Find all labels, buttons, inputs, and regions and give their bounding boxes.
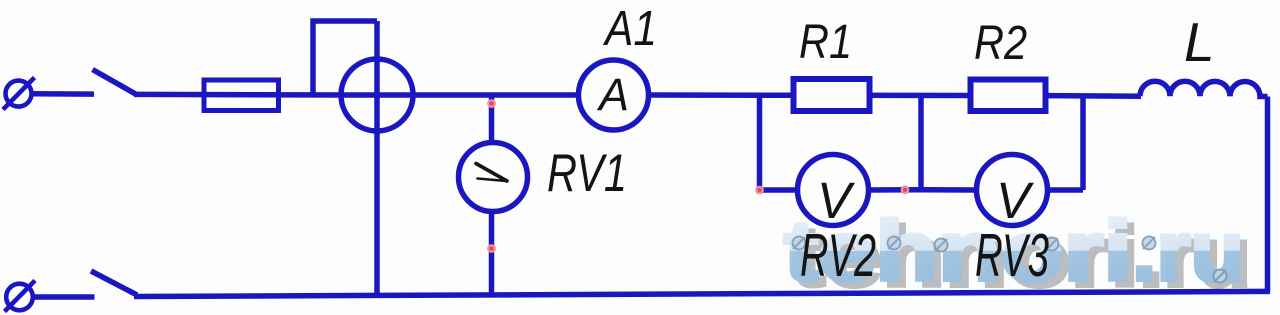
svg-text:RV2: RV2 (800, 222, 876, 289)
svg-text:V: V (996, 172, 1034, 229)
svg-text:R2: R2 (974, 17, 1027, 70)
svg-text:V: V (817, 172, 855, 229)
svg-text:R1: R1 (799, 16, 852, 69)
svg-text:A: A (596, 69, 629, 120)
svg-text:RV3: RV3 (975, 222, 1049, 289)
svg-text:RV1: RV1 (547, 144, 627, 203)
svg-text:.ru: .ru (1132, 204, 1244, 298)
svg-text:L: L (1184, 11, 1215, 73)
svg-text:A1: A1 (602, 2, 657, 56)
